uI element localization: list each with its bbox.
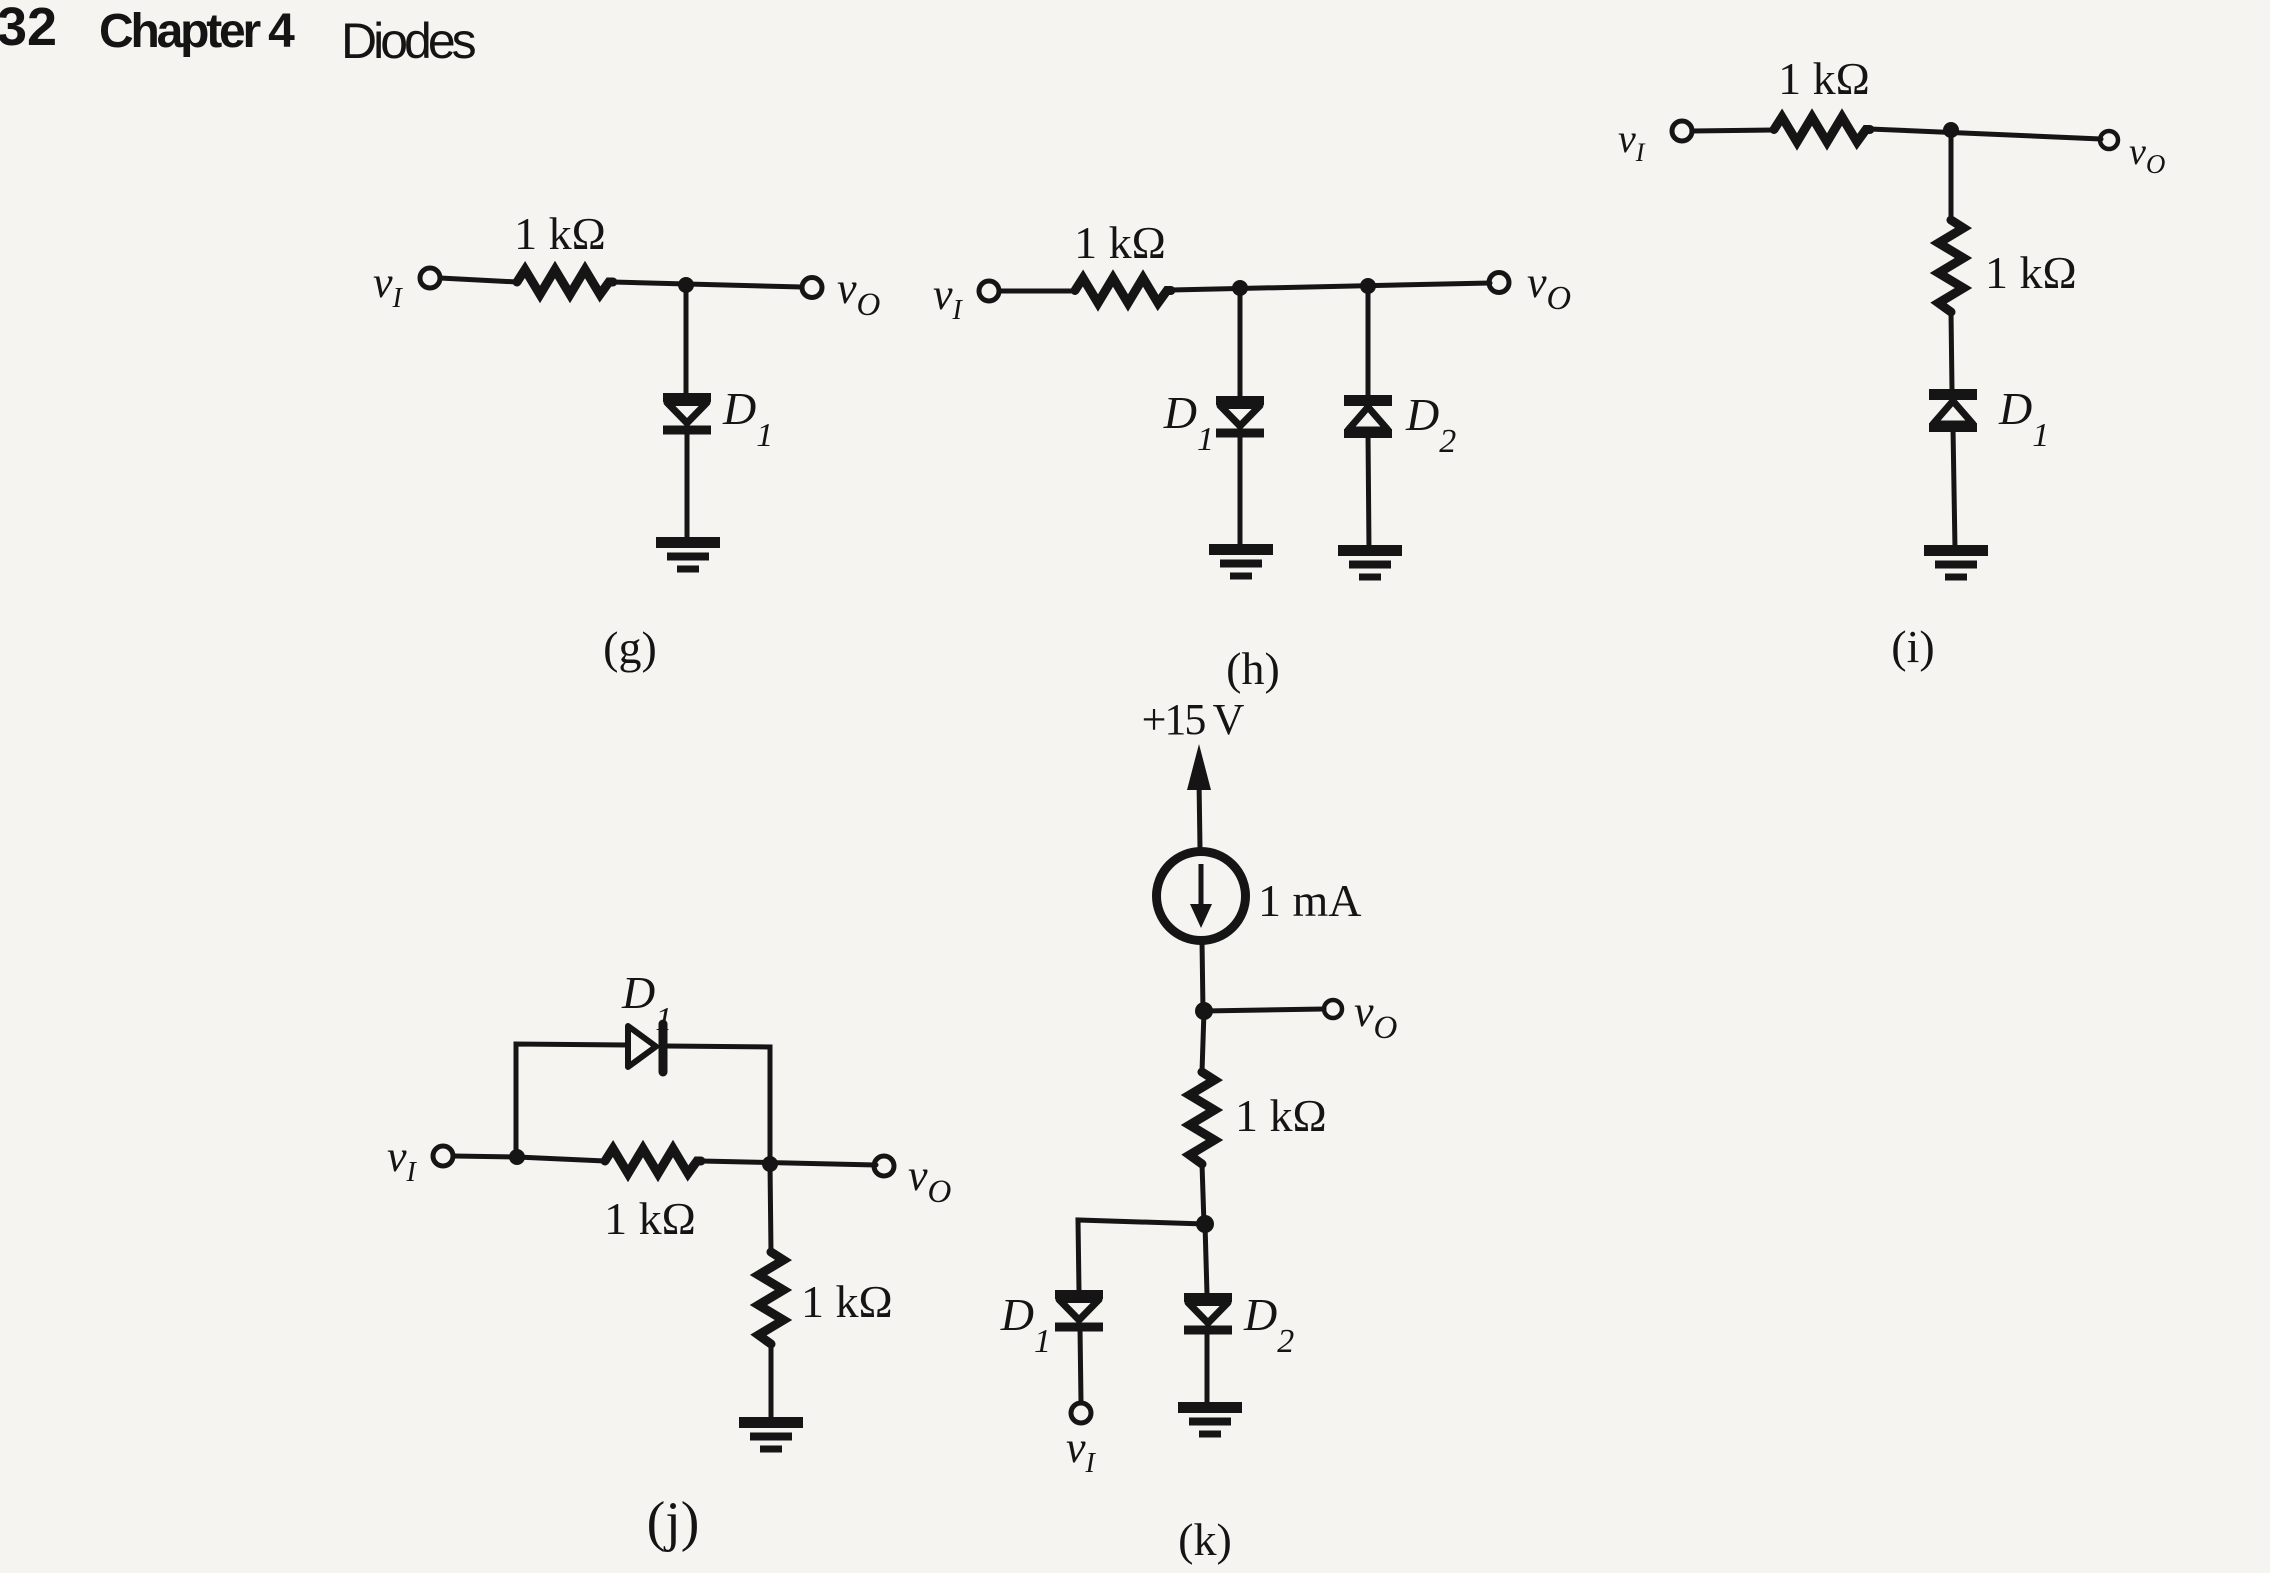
svg-text:(g): (g) [603, 622, 657, 673]
svg-text:(k): (k) [1178, 1514, 1232, 1565]
svg-text:(j): (j) [647, 1491, 700, 1553]
svg-text:+15 V: +15 V [1142, 695, 1245, 744]
svg-text:(h): (h) [1226, 643, 1280, 694]
svg-text:Chapter 4: Chapter 4 [99, 5, 295, 58]
svg-text:1 kΩ: 1 kΩ [1778, 53, 1870, 104]
svg-text:1 kΩ: 1 kΩ [801, 1276, 893, 1327]
svg-text:1 mA: 1 mA [1258, 875, 1362, 926]
svg-text:32: 32 [0, 0, 57, 57]
svg-text:1 kΩ: 1 kΩ [604, 1193, 696, 1244]
svg-text:1 kΩ: 1 kΩ [1074, 217, 1166, 268]
svg-text:1 kΩ: 1 kΩ [1985, 247, 2077, 298]
svg-text:Diodes: Diodes [341, 13, 476, 69]
svg-text:(i): (i) [1891, 621, 1934, 672]
svg-text:1 kΩ: 1 kΩ [1235, 1090, 1327, 1141]
svg-text:1 kΩ: 1 kΩ [514, 208, 606, 259]
